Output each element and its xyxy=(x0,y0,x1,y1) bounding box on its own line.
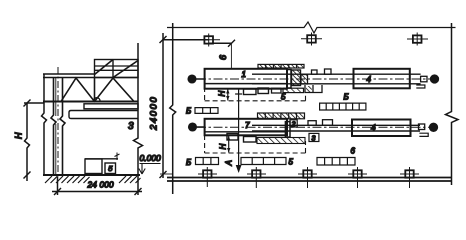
svg-text:А: А xyxy=(225,160,234,166)
row1 right hook xyxy=(416,85,425,88)
svg-text:24 000: 24 000 xyxy=(87,181,114,190)
column left face xyxy=(51,78,56,175)
top column A1 xyxy=(198,34,220,47)
row1 below-bar blocks xyxy=(305,85,322,93)
row1 dot tail xyxy=(196,78,205,80)
skylight diagonal right xyxy=(113,61,138,78)
row2 bar block b xyxy=(323,120,333,126)
row2 bar block a xyxy=(308,121,316,126)
column inner line xyxy=(55,78,57,175)
svg-text:Н: Н xyxy=(218,91,227,97)
ground line xyxy=(43,174,140,176)
row2 dashed zone xyxy=(205,135,306,153)
truss bottom chord xyxy=(43,101,138,103)
machine big box xyxy=(85,159,102,174)
bottom dim extension left xyxy=(57,177,59,195)
svg-text:Н: Н xyxy=(219,144,228,150)
row2 bar bottom xyxy=(252,130,420,132)
ext line to beam1 xyxy=(230,43,232,68)
truss diagonals xyxy=(61,78,134,102)
machine leader xyxy=(115,153,120,161)
row2 bar top xyxy=(252,124,420,126)
svg-text:5: 5 xyxy=(108,164,113,173)
dim 6 tick xyxy=(228,40,235,47)
svg-text:4: 4 xyxy=(367,75,372,84)
top column A3 xyxy=(407,33,428,46)
svg-text:24000: 24000 xyxy=(149,96,160,131)
skylight mid vertical xyxy=(112,60,114,78)
label 2 box xyxy=(290,120,297,127)
row1 axis dot xyxy=(188,75,196,83)
svg-text:H: H xyxy=(14,132,24,139)
right edge line of section xyxy=(134,43,143,195)
row2 top hatch strip xyxy=(258,113,305,119)
row2 centerline xyxy=(197,126,429,128)
row1 bar block a xyxy=(312,70,318,74)
vert dim line 24000 xyxy=(162,33,164,178)
montage arrow A xyxy=(235,89,242,172)
svg-text:7: 7 xyxy=(245,121,250,130)
row1 hatched block xyxy=(292,70,301,86)
svg-text:5: 5 xyxy=(289,158,294,167)
bottom column B5 xyxy=(400,167,419,188)
plan top line xyxy=(167,22,456,33)
eave upper line xyxy=(43,73,95,75)
dim 6 line xyxy=(209,42,232,44)
row2 right hook xyxy=(419,133,428,136)
svg-text:1: 1 xyxy=(242,70,246,79)
machine shelf line xyxy=(85,158,118,160)
row1 dashed zone xyxy=(205,87,306,101)
row2 right dot xyxy=(430,123,438,131)
truss vertical at skylight left xyxy=(94,78,96,102)
skylight horizontals xyxy=(95,66,139,70)
ground hatch right xyxy=(119,176,141,183)
svg-text:6: 6 xyxy=(351,147,356,156)
row1 connector xyxy=(301,75,308,85)
horiz dim line top xyxy=(163,39,209,41)
top column A2 xyxy=(301,33,322,46)
skylight box xyxy=(95,60,139,78)
wall left edge xyxy=(42,74,47,175)
row1 below blocks a xyxy=(244,89,257,95)
row1 lower hatch band xyxy=(272,88,282,93)
svg-text:4: 4 xyxy=(371,124,376,133)
row1 long blocks row xyxy=(320,103,366,110)
montage arrowhead xyxy=(236,166,240,172)
row1 left blocks row xyxy=(195,108,218,114)
plan left edge xyxy=(170,23,176,194)
plan right edge xyxy=(446,23,459,185)
row2 below blocks a xyxy=(244,137,257,143)
beam 1 xyxy=(205,69,287,89)
row1 top hatch strip xyxy=(258,64,304,68)
row2 left blocks row xyxy=(196,158,219,165)
H dim tick bottom xyxy=(24,172,31,179)
row1 end plate xyxy=(287,70,291,89)
vert dim tick bottom xyxy=(160,171,167,178)
trolley node mark xyxy=(94,98,101,101)
crane girder upper slab xyxy=(84,104,138,109)
svg-text:5: 5 xyxy=(281,93,286,102)
crane girder body xyxy=(69,111,138,119)
row2 lower hatch band xyxy=(257,138,305,144)
element 4 row1 xyxy=(354,69,410,89)
level arrow xyxy=(139,164,145,175)
bottom column B2 xyxy=(247,167,266,188)
column axis xyxy=(57,67,59,178)
element 4 row2 xyxy=(352,120,411,137)
row1 centerline xyxy=(197,78,430,80)
H dim line xyxy=(25,103,30,181)
row1 bar bottom xyxy=(252,83,421,85)
bottom dim tick right xyxy=(135,188,142,195)
bottom column B3 xyxy=(298,167,317,188)
truss top chord xyxy=(43,77,138,79)
bottom axis ext line xyxy=(160,173,173,175)
column right face xyxy=(60,78,65,175)
H dim tick top xyxy=(24,100,31,107)
row2 end plate xyxy=(285,122,290,138)
row1 bar top xyxy=(252,73,421,75)
svg-text:0.000: 0.000 xyxy=(140,153,162,163)
row2 H arrow dim xyxy=(228,136,230,153)
row1 lower hatch band2 xyxy=(283,88,304,92)
row1 H arrow dim xyxy=(227,89,229,101)
bottom dim line xyxy=(52,191,142,193)
label 3 box xyxy=(309,133,319,141)
svg-text:Б: Б xyxy=(344,93,349,102)
row1 bar block b xyxy=(325,69,332,74)
row2 right connector xyxy=(419,124,425,130)
row2 6 blocks row xyxy=(317,158,355,166)
svg-text:3: 3 xyxy=(128,121,134,132)
row1 below blocks b xyxy=(258,88,269,94)
level underline xyxy=(140,163,161,165)
svg-text:Б: Б xyxy=(186,107,191,116)
row1 right dot xyxy=(431,75,439,83)
skylight diagonal left xyxy=(95,60,114,75)
svg-text:Б: Б xyxy=(186,158,191,167)
H dim top extension xyxy=(24,102,44,104)
row2 axis dot xyxy=(189,123,197,131)
bottom column B1 xyxy=(198,167,217,187)
row2 dot tail xyxy=(196,126,204,128)
row1 right connector xyxy=(421,76,427,82)
bottom dim tick left xyxy=(54,188,61,195)
machine small box xyxy=(105,163,116,174)
plan bottom line 2 xyxy=(167,180,451,182)
vert dim tick top xyxy=(160,36,167,43)
bottom column B4 xyxy=(348,167,367,188)
beam 7 xyxy=(205,119,287,136)
row2 5 blocks row xyxy=(241,158,286,165)
ground hatch left xyxy=(45,176,90,183)
plan bottom line 1 xyxy=(167,177,451,179)
svg-text:6: 6 xyxy=(218,55,228,60)
svg-text:3: 3 xyxy=(312,136,316,143)
